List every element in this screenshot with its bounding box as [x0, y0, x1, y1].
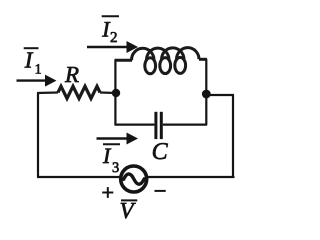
current label I3: [102, 143, 120, 176]
resistor R: [37, 86, 116, 98]
svg-text:R: R: [64, 62, 79, 87]
current label I1: [24, 47, 42, 77]
svg-text:V: V: [120, 198, 137, 223]
wire bottom: [37, 176, 235, 178]
inductor L: [115, 48, 208, 74]
source label Vbar: [120, 198, 138, 223]
current arrow I3: [97, 133, 139, 145]
source V (AC): [121, 166, 147, 192]
capacitor C: [115, 112, 208, 139]
svg-text:1: 1: [35, 63, 42, 78]
source plus sign: [102, 187, 113, 198]
source minus sign: [155, 190, 166, 192]
svg-text:C: C: [152, 139, 169, 165]
wire right branch vertical: [205, 59, 207, 125]
wire right outer vertical: [232, 95, 234, 178]
wire left vertical: [37, 93, 39, 177]
wire right horizontal from node B: [206, 94, 234, 96]
svg-text:2: 2: [110, 30, 118, 46]
current arrow I2: [87, 41, 138, 53]
node A (left junction dot): [112, 89, 120, 97]
node B (right junction dot): [202, 90, 211, 99]
svg-text:I: I: [24, 47, 34, 72]
svg-text:I: I: [102, 143, 112, 168]
current label I2: [101, 16, 119, 46]
wire left branch vertical: [114, 60, 116, 125]
current arrow I1: [17, 75, 57, 87]
svg-text:3: 3: [112, 160, 119, 176]
